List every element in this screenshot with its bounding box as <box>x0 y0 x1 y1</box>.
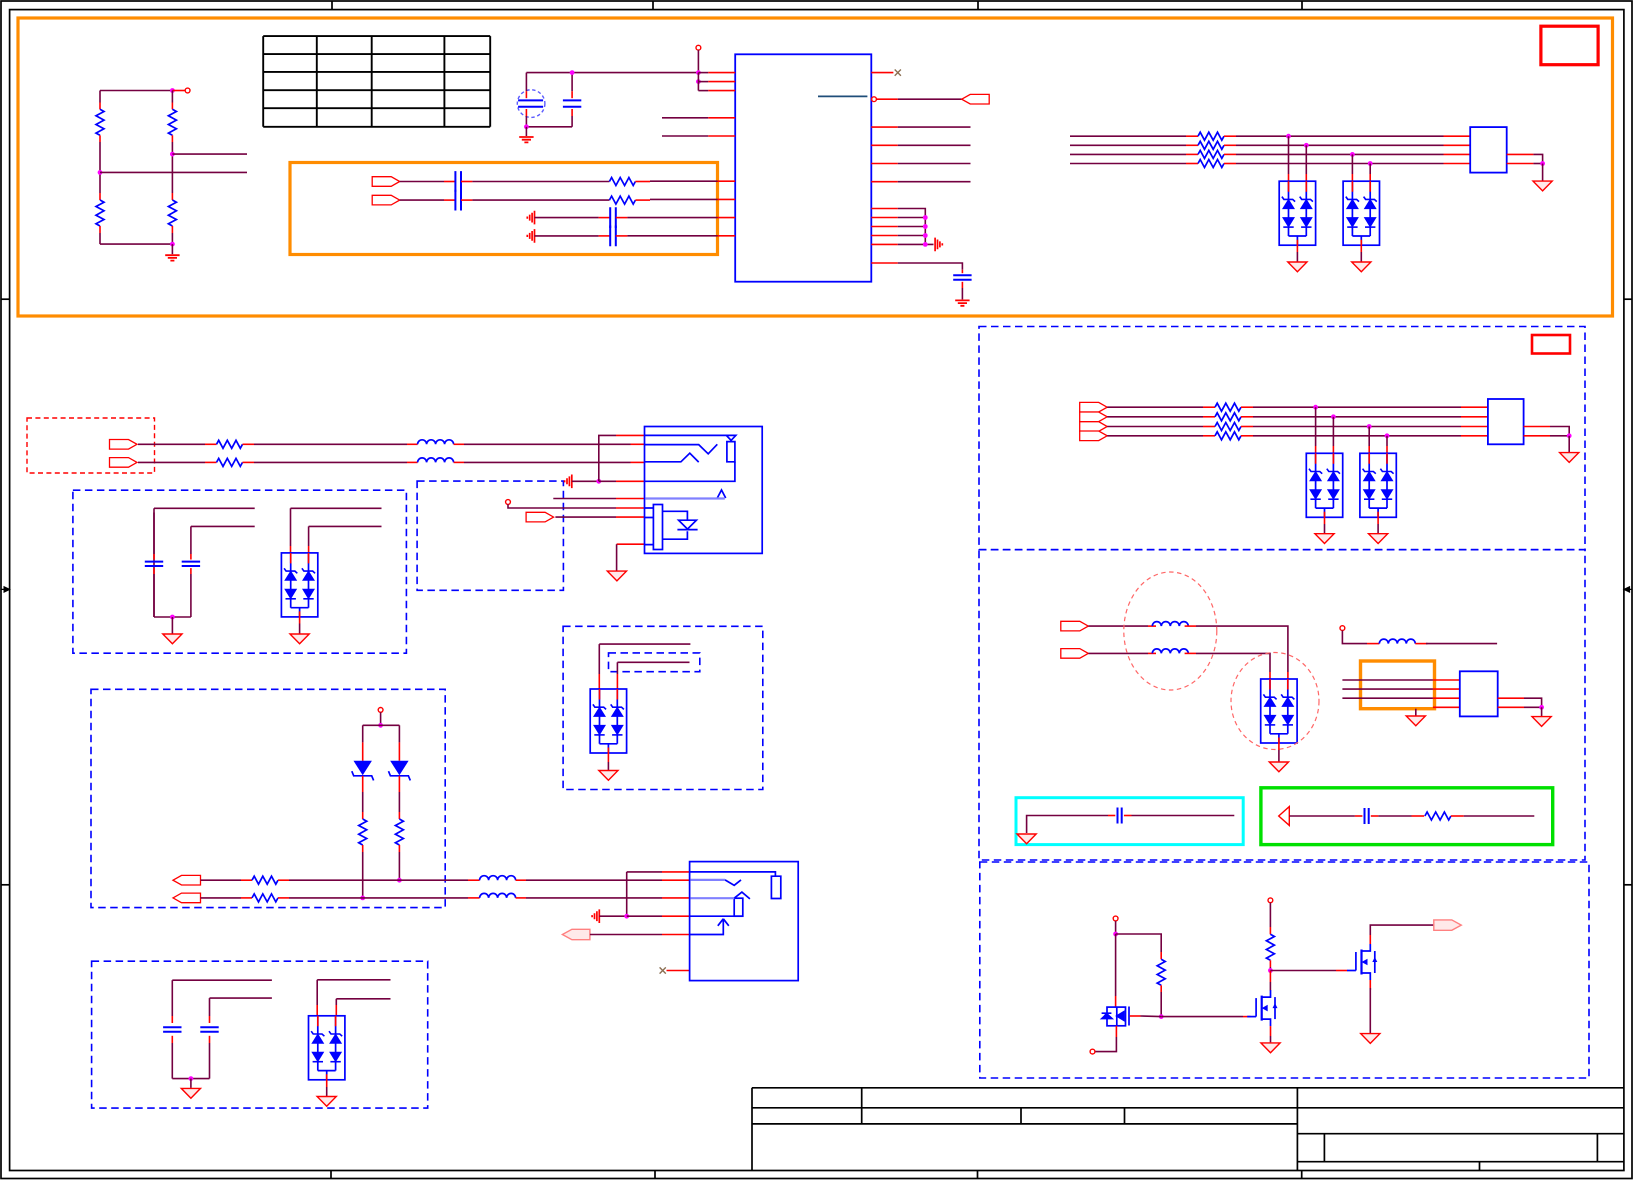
crystal Y1 dashed circle <box>517 90 545 118</box>
wire <box>289 897 468 899</box>
junction <box>170 242 175 247</box>
wire pin3 <box>698 90 708 92</box>
wire bus left <box>1070 144 1186 146</box>
red dashed box (audio input) <box>27 418 155 473</box>
wire <box>171 1043 173 1079</box>
red marker rect (top right) <box>1541 26 1598 64</box>
wire <box>898 226 926 228</box>
resistor R18 <box>217 440 243 448</box>
U1 internal overline <box>818 95 867 97</box>
capacitor C1 <box>563 100 581 106</box>
U1 pin7 stub <box>718 198 736 200</box>
wire <box>1415 709 1417 716</box>
wire to ground <box>171 244 173 254</box>
wire <box>599 915 626 917</box>
wire <box>380 712 382 725</box>
wire bus <box>1107 406 1203 408</box>
wire bus <box>1253 406 1461 408</box>
inductor L6 <box>480 876 516 881</box>
wire <box>607 762 609 770</box>
junction <box>1113 932 1118 937</box>
ground GND16 <box>607 571 626 581</box>
ground GND6 <box>1533 181 1552 191</box>
ground GND14 <box>1261 1043 1280 1053</box>
resistor R11 <box>1215 403 1241 411</box>
resistor R21 <box>395 819 403 845</box>
wire <box>153 507 155 509</box>
wire <box>464 461 631 463</box>
wire <box>172 979 272 981</box>
junction <box>570 70 575 75</box>
U1 right pin stub 2 <box>871 144 898 146</box>
port arrow tag <box>1279 807 1290 826</box>
D6 ground stub <box>299 617 301 624</box>
wire <box>1524 706 1542 708</box>
diode D7 <box>354 761 372 775</box>
pin circle P6 <box>1268 898 1273 903</box>
wire bus <box>1253 416 1461 418</box>
J1 out stub2 <box>1507 163 1534 165</box>
audio jack J4 <box>645 427 763 554</box>
resistor R13 <box>1215 423 1241 431</box>
wire <box>1269 982 1271 991</box>
no-connect X2 <box>660 967 666 973</box>
wire bus left <box>1070 135 1186 137</box>
centre arrow left border <box>1 587 10 592</box>
U1 pin9 stub <box>718 235 736 237</box>
wire <box>1533 163 1542 165</box>
wire tap <box>1315 407 1317 446</box>
ground GND20 <box>181 1088 200 1098</box>
junction <box>524 124 529 129</box>
wire <box>1269 967 1271 971</box>
wire <box>1115 934 1117 996</box>
zone tick left 1 <box>1 298 10 300</box>
Q1 source stub <box>1115 1026 1117 1037</box>
wire top <box>100 90 172 92</box>
wire <box>289 879 468 881</box>
wire <box>308 526 310 546</box>
ground GND15 <box>1361 1034 1380 1044</box>
wire <box>1095 1037 1116 1052</box>
wire <box>572 480 599 482</box>
J1 out stub1 <box>1507 153 1534 155</box>
wire <box>171 617 173 634</box>
jack2 pin5 stub <box>662 934 690 936</box>
wire <box>590 934 662 936</box>
J3 out stub1 <box>1498 697 1524 699</box>
wire gate link <box>1161 1016 1243 1018</box>
wire <box>616 662 618 674</box>
wire <box>1550 427 1569 436</box>
wire <box>1115 921 1117 934</box>
wire mid tap <box>172 153 247 155</box>
ground GND4 <box>1288 262 1307 272</box>
wire <box>398 792 400 812</box>
wire bus <box>1253 426 1461 428</box>
junction <box>189 1076 194 1081</box>
wire <box>398 725 400 742</box>
U1 pin stub a <box>871 208 898 210</box>
port tag SPK+ <box>1061 621 1089 631</box>
wire <box>1370 925 1434 935</box>
wire bottom join <box>526 126 572 128</box>
orange highlight box (top section) <box>18 18 1613 316</box>
wire tap <box>1332 417 1334 446</box>
U1 pin6 stub <box>718 180 736 182</box>
port tag RESET <box>962 94 990 104</box>
transistor Q2 <box>1247 990 1277 1026</box>
resistor R17 <box>1266 934 1274 960</box>
wire stub to pin <box>172 90 185 92</box>
esd stub <box>1269 672 1271 679</box>
jack1 pin5 stub <box>616 498 645 500</box>
wire <box>172 1078 209 1080</box>
wire bus <box>1107 416 1203 418</box>
junction <box>923 224 928 229</box>
pin circle P5 <box>1090 1049 1095 1054</box>
wire cap bottom <box>571 116 573 127</box>
port tag USB4 <box>1080 431 1108 441</box>
junction <box>923 215 928 220</box>
jack1 pin6 stub <box>616 507 645 509</box>
wire <box>171 233 173 244</box>
junction <box>1367 424 1372 429</box>
wire <box>171 980 173 1016</box>
zone tick right 1 <box>1624 298 1633 300</box>
capacitor C10 <box>182 562 200 566</box>
zone tick top 2 <box>652 1 654 10</box>
blue dashed box right section 2 <box>979 550 1585 860</box>
ground GND5 <box>1352 262 1371 272</box>
wire <box>1378 815 1411 817</box>
junction <box>1539 705 1544 710</box>
wire bus <box>1107 426 1203 428</box>
centre arrow right border <box>1624 587 1633 592</box>
wire net <box>898 144 971 146</box>
wire tap <box>1368 427 1370 447</box>
wire <box>154 507 255 509</box>
ground GND1 <box>165 255 179 260</box>
wire <box>1196 626 1288 672</box>
wire <box>153 508 155 554</box>
U1 pin stub f <box>871 262 898 264</box>
junction <box>1286 134 1291 139</box>
port tag USB3 <box>1080 422 1108 432</box>
blue dashed box 2 (bias network) <box>91 689 445 907</box>
wire <box>1088 652 1148 654</box>
wire <box>1541 707 1543 716</box>
wire tap <box>1386 436 1388 446</box>
wire crystal top <box>525 73 527 92</box>
wire <box>599 480 616 482</box>
orange highlight box (mic input) <box>290 163 718 255</box>
wire <box>190 574 192 617</box>
D4 ground stub <box>1377 517 1379 524</box>
D1 ground stub <box>1296 245 1298 252</box>
wire <box>464 443 631 445</box>
resistor R23 <box>252 894 278 902</box>
resistor R4 <box>168 200 176 226</box>
wire pullup <box>697 50 699 73</box>
wire <box>555 516 616 518</box>
J3 out stub2 <box>1498 706 1524 708</box>
wire <box>1141 1015 1162 1018</box>
wire tap3 <box>1351 154 1353 174</box>
junction <box>1350 152 1355 157</box>
junction <box>1268 968 1273 973</box>
jack2 switch line a (light) <box>691 879 725 881</box>
zone tick left 2 <box>1 884 10 886</box>
capacitor C11 <box>163 1027 181 1031</box>
emc dashed ellipse 1 <box>1124 572 1217 690</box>
wire <box>400 181 444 183</box>
ground GND17 <box>163 634 182 644</box>
capacitor C2 <box>953 275 971 279</box>
blue dashed box 3a (inner) <box>609 653 700 672</box>
junction <box>923 242 928 247</box>
port tag USB1 <box>1080 402 1108 412</box>
ground GND7 <box>1315 534 1334 544</box>
wire <box>898 263 963 270</box>
junction <box>1368 161 1373 166</box>
diode array D9 <box>590 689 626 753</box>
capacitor C7 <box>1118 808 1122 824</box>
U1 right pin stub 1 <box>871 126 898 128</box>
junction <box>170 615 175 620</box>
resistor R12 <box>1215 413 1241 421</box>
wire <box>362 792 364 812</box>
resistor R7 <box>1198 132 1224 140</box>
chassis ground AGND5 <box>592 909 599 923</box>
wire <box>526 897 662 899</box>
ground GND2 <box>519 137 533 142</box>
wire <box>1160 992 1162 1017</box>
capacitor C3 <box>455 171 461 192</box>
wire bus <box>1236 153 1444 155</box>
wire to ground <box>525 127 527 136</box>
pin circle P8 <box>378 708 383 713</box>
J2 out stub2 <box>1524 435 1550 437</box>
wire pin2 <box>698 81 708 83</box>
ground GND8 <box>1369 534 1388 544</box>
wire bus <box>1107 435 1203 437</box>
wire <box>598 644 600 674</box>
jack2 switch line b (light) <box>691 897 735 899</box>
wire <box>472 199 609 201</box>
wire conn bus3 <box>1342 697 1433 699</box>
wire <box>508 504 616 508</box>
diode D8 <box>390 761 408 775</box>
diode array D6 <box>281 553 317 617</box>
Q2 source stub <box>1270 1026 1272 1036</box>
capacitor C8 <box>1365 808 1369 824</box>
wire <box>400 199 444 201</box>
blue dashed box 4 (bottom caps + esd) <box>92 961 428 1108</box>
blue dashed box 3 (esd right of jack) <box>563 626 763 789</box>
wire <box>599 643 690 645</box>
chassis ground AGND4 <box>565 475 572 489</box>
blue dashed box right section 1 <box>979 327 1585 550</box>
wire conn bus1 <box>1342 679 1433 681</box>
conn pin4 stub <box>1433 706 1460 708</box>
ground GND18 <box>290 634 309 644</box>
wire <box>138 443 205 445</box>
resistor R3 <box>168 109 176 135</box>
junction <box>696 70 701 75</box>
wire <box>201 897 242 899</box>
port tag OUT <box>1434 920 1462 930</box>
junction <box>1304 143 1309 148</box>
D7 stub <box>362 776 364 792</box>
wire pin4 net <box>662 117 708 119</box>
red marker rect (section 2) <box>1532 335 1570 354</box>
port tag DET2 <box>562 929 590 939</box>
port tag MIC+ <box>372 177 400 187</box>
port tag SPK- <box>1061 649 1089 659</box>
junction <box>696 79 701 84</box>
wire <box>1426 643 1497 645</box>
resistor R20 <box>359 819 367 845</box>
wire <box>1342 631 1367 644</box>
wire net <box>898 126 971 128</box>
resistor R1 <box>96 109 104 135</box>
resistor R14 <box>1215 432 1241 440</box>
ground GND9 <box>1560 453 1579 463</box>
wire net <box>898 181 971 183</box>
port tag HPL <box>110 440 138 450</box>
wire bus <box>1236 144 1444 146</box>
U1 pin stub d <box>871 235 898 237</box>
wire <box>627 235 717 237</box>
wire bottom <box>100 243 172 245</box>
J2 out stub1 <box>1524 426 1550 428</box>
wire <box>299 624 301 634</box>
jack1 sleeve line (light) <box>645 497 724 499</box>
ground GND11 <box>1406 716 1425 726</box>
wire tap4 <box>1369 164 1371 175</box>
diode array D4 <box>1360 453 1396 517</box>
junction <box>923 233 928 238</box>
wire net XTAL <box>526 72 698 74</box>
capacitor C6 <box>610 226 616 247</box>
inductor L1 <box>1152 622 1188 627</box>
wire <box>309 525 382 527</box>
wire left column <box>99 91 101 103</box>
wire <box>362 725 364 742</box>
pin circle P7 <box>506 500 511 505</box>
Q1 drain stub <box>1115 996 1117 1007</box>
wire <box>1369 988 1371 1033</box>
wire to tag <box>898 98 962 100</box>
D8 stub <box>398 776 400 792</box>
inductor L2 <box>1152 649 1188 654</box>
wire <box>1088 625 1148 627</box>
chassis ground AGND3 <box>527 229 534 243</box>
wire <box>1269 903 1271 927</box>
wire <box>1270 1036 1272 1042</box>
inductor L3 <box>1379 639 1415 644</box>
wire <box>326 1087 328 1096</box>
wire <box>635 199 650 201</box>
zone tick top 1 <box>331 1 333 10</box>
wire bus left <box>1070 153 1186 155</box>
wire pin1 <box>698 72 708 74</box>
wire <box>1132 815 1235 817</box>
diode array D2 <box>1343 181 1379 245</box>
wire <box>362 852 364 898</box>
diode array D5 <box>1261 679 1297 743</box>
port tag HPR <box>110 458 138 468</box>
transistor Q1 <box>1102 1007 1129 1026</box>
wire <box>1533 154 1542 163</box>
connector J1 <box>1470 127 1507 173</box>
junction <box>397 878 402 883</box>
inductor L7 <box>480 893 516 898</box>
wire <box>898 217 926 219</box>
wire down <box>697 73 699 91</box>
junction <box>1159 1014 1164 1019</box>
ground GND21 <box>317 1097 336 1107</box>
wire <box>398 852 400 880</box>
wire <box>171 142 173 193</box>
wire <box>335 999 337 1005</box>
jack1 pin7 stub <box>616 516 645 518</box>
blue dashed box right section 3 <box>980 862 1589 1078</box>
resistor R2 <box>96 200 104 226</box>
wire <box>1464 815 1535 817</box>
zone tick bottom 1 <box>330 1171 332 1179</box>
junction <box>596 479 601 484</box>
chassis ground AGND1 <box>935 238 942 252</box>
zone tick right 2 <box>1624 884 1633 886</box>
wire <box>190 526 192 554</box>
wire <box>201 879 242 881</box>
orange highlight box (connector area) <box>1361 661 1435 709</box>
resistor R9 <box>1198 150 1224 158</box>
transistor Q3 <box>1347 944 1377 980</box>
wire <box>1027 816 1108 834</box>
port tag MIC- <box>372 195 400 205</box>
resistor R22 <box>252 876 278 884</box>
ground GND10 <box>1269 762 1288 772</box>
revision table <box>263 36 490 127</box>
wire <box>635 181 650 183</box>
resistor R8 <box>1198 141 1224 149</box>
wire <box>317 979 390 981</box>
wire <box>1289 815 1355 817</box>
wire <box>1542 164 1544 181</box>
jack1 pin4 stub <box>616 480 645 482</box>
U1 right pin stub 4 <box>871 181 898 183</box>
wire <box>316 980 318 1005</box>
port tag USB2 <box>1080 412 1108 422</box>
U1 right pin stub 3 <box>871 163 898 165</box>
diode array D1 <box>1279 181 1315 245</box>
wire pin5 net <box>662 135 708 137</box>
connector J2 <box>1488 399 1524 444</box>
resistor R5 <box>609 178 635 186</box>
zone tick bottom 2 <box>654 1171 656 1179</box>
wire right column <box>171 91 173 103</box>
wire <box>291 507 382 509</box>
capacitor C9 <box>145 562 163 566</box>
wire bus <box>1253 435 1461 437</box>
wire crystal bottom <box>525 116 527 127</box>
wire tap2 <box>1305 145 1307 174</box>
zone tick top 4 <box>1301 1 1303 10</box>
capacitor C5 <box>610 207 616 228</box>
